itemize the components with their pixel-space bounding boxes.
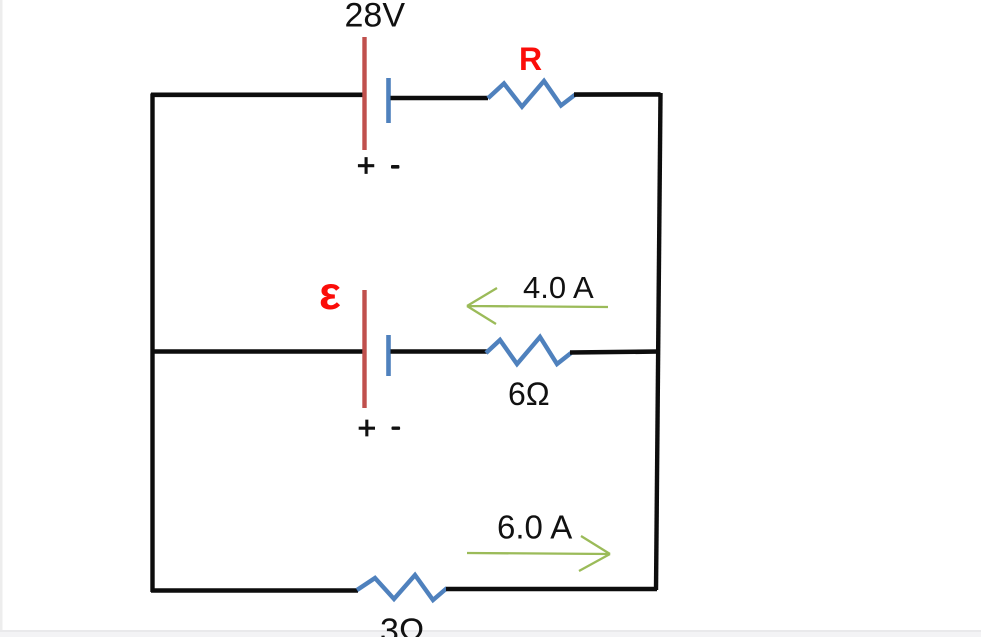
svg-text:4.0 A: 4.0 A <box>523 270 594 305</box>
svg-text:R: R <box>519 41 542 77</box>
battery V1 positive plate (red) <box>362 37 366 150</box>
svg-text:6Ω: 6Ω <box>508 376 550 412</box>
wire battery V1 to resistor R <box>391 96 489 101</box>
svg-text:+: + <box>358 410 377 446</box>
svg-text:28V: 28V <box>345 0 406 35</box>
current arrow 4.0A (left pointing, green) <box>467 288 608 324</box>
wire top-left horizontal <box>151 93 363 98</box>
resistor 6ohm zigzag <box>486 337 571 364</box>
label V1 polarity minus <box>391 165 399 169</box>
resistor R zigzag <box>488 81 575 107</box>
label EMF polarity minus <box>392 427 401 430</box>
wire left rail <box>150 94 154 593</box>
battery EMF positive plate (red) <box>362 290 366 408</box>
wire resistor R to top-right corner <box>574 92 661 97</box>
svg-text:+: + <box>357 148 376 184</box>
resistor 3ohm zigzag <box>357 575 447 600</box>
wire right rail <box>656 93 661 590</box>
wire middle-left horizontal <box>151 349 363 354</box>
wire resistor 3ohm to bottom-right corner <box>446 587 657 592</box>
wire bottom-left horizontal <box>151 588 358 593</box>
wire battery EMF to resistor 6ohm <box>391 349 488 354</box>
svg-text:6.0 A: 6.0 A <box>497 509 572 546</box>
battery V1 negative plate (blue) <box>386 78 391 123</box>
battery EMF negative plate (blue) <box>386 335 391 376</box>
svg-text:ε: ε <box>319 267 341 319</box>
svg-text:3Ω: 3Ω <box>380 612 424 637</box>
current arrow 6.0A (right pointing, green) <box>467 536 610 571</box>
wire resistor 6ohm to right rail <box>570 352 659 353</box>
